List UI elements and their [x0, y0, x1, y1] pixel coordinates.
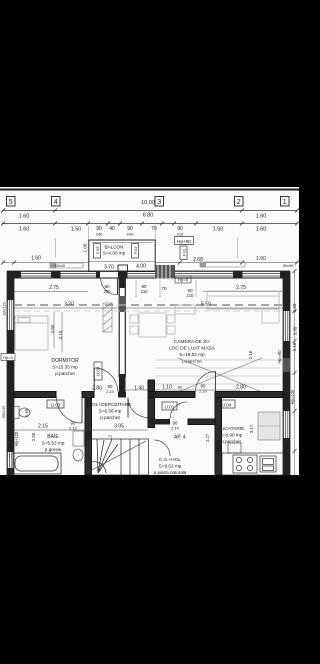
balcony door gap line — [100, 270, 118, 272]
svg-text:F.03: F.03 — [95, 246, 100, 254]
svg-text:Hp+90: Hp+90 — [177, 239, 191, 244]
window tag F01 — [180, 246, 187, 260]
dim line A — [2, 210, 297, 212]
svg-text:U.03: U.03 — [51, 403, 61, 408]
top exterior wall — [7, 265, 290, 279]
svg-text:6.80: 6.80 — [143, 213, 154, 219]
svg-text:4: 4 — [54, 199, 58, 206]
Hp=0 box right — [175, 276, 191, 283]
svg-text:2.15: 2.15 — [38, 424, 48, 430]
stairs — [88, 439, 149, 475]
svg-text:2.10: 2.10 — [292, 342, 297, 351]
svg-text:2.10: 2.10 — [248, 350, 253, 359]
grid bubble 2 — [235, 197, 244, 207]
svg-text:C.S.+HOL: C.S.+HOL — [159, 457, 181, 463]
hall door arc — [128, 398, 148, 418]
svg-text:2.80: 2.80 — [92, 386, 102, 392]
solid piers — [7, 271, 21, 279]
grid bubble 4 — [52, 197, 61, 207]
window right wall kitchen — [284, 411, 286, 438]
svg-text:F.01: F.01 — [182, 248, 187, 256]
svg-text:5: 5 — [9, 199, 13, 206]
svg-text:Hp=0: Hp=0 — [178, 278, 189, 283]
vertical wall kitchen — [215, 398, 222, 476]
svg-text:3.70: 3.70 — [64, 302, 74, 308]
svg-text:2.10: 2.10 — [171, 426, 180, 431]
svg-text:3.17: 3.17 — [249, 424, 254, 433]
svg-text:2.50: 2.50 — [31, 432, 36, 441]
svg-text:2: 2 — [237, 199, 241, 206]
svg-text:210: 210 — [141, 289, 149, 294]
svg-text:60x40: 60x40 — [283, 264, 293, 268]
dim line 1.60 row — [2, 262, 88, 264]
svg-text:Hp=90: Hp=90 — [277, 350, 282, 364]
svg-text:p.parchet: p.parchet — [100, 415, 120, 420]
svg-text:S=6.56 mp: S=6.56 mp — [99, 409, 122, 414]
winder arc — [92, 462, 107, 473]
svg-text:210: 210 — [177, 232, 184, 237]
dormitor door arc — [94, 368, 118, 392]
svg-text:1.50: 1.50 — [213, 227, 224, 233]
stove burners — [233, 455, 257, 473]
svg-text:LOC DE LUAT MASA: LOC DE LUAT MASA — [169, 346, 216, 352]
U 01 tag — [162, 402, 177, 410]
cs door arc — [155, 440, 171, 456]
sofa group — [207, 291, 279, 323]
winder fan treads — [98, 439, 112, 473]
vertical wall stairs/right — [148, 398, 155, 428]
stair break diagonal — [88, 441, 146, 472]
window right wall living — [284, 311, 286, 341]
svg-text:1.45: 1.45 — [24, 408, 29, 417]
window mid lines — [21, 274, 280, 277]
svg-text:S=15.35 mp: S=15.35 mp — [52, 365, 78, 370]
bathtub — [12, 453, 61, 474]
ticks dim lines — [1, 209, 299, 226]
svg-text:100/120: 100/120 — [3, 302, 7, 316]
X cross living — [178, 358, 262, 392]
plan white band — [0, 187, 299, 475]
svg-text:2.10: 2.10 — [199, 389, 208, 394]
grid bubble 1 — [281, 197, 290, 207]
svg-text:U.04: U.04 — [222, 403, 232, 408]
Hp+90 box — [175, 237, 194, 245]
window left wall (baie) — [8, 452, 10, 468]
door tag U.03 vertical — [94, 362, 102, 380]
svg-text:F.03: F.03 — [133, 246, 138, 254]
svg-text:Hp+120: Hp+120 — [14, 431, 19, 446]
svg-text:1.60: 1.60 — [19, 214, 30, 220]
bed — [15, 316, 48, 350]
svg-text:1.60: 1.60 — [256, 256, 266, 262]
svg-text:1.00: 1.00 — [83, 243, 88, 252]
wall segment ap4 — [148, 419, 170, 425]
beam over wall right — [200, 262, 245, 267]
door in ap4 wall — [170, 402, 187, 419]
svg-text:2.27: 2.27 — [205, 433, 210, 442]
toilet — [14, 407, 30, 419]
kitchen counter — [222, 453, 283, 475]
svg-text:3.05: 3.05 — [114, 424, 124, 430]
washbasin — [73, 449, 83, 461]
svg-text:1.60: 1.60 — [256, 214, 267, 220]
beam over wall left — [50, 263, 83, 268]
svg-text:210: 210 — [187, 293, 195, 298]
living floor lines — [155, 360, 280, 384]
top black band — [0, 0, 299, 187]
svg-text:60x40: 60x40 — [55, 264, 65, 268]
svg-text:10.00: 10.00 — [141, 200, 155, 206]
svg-text:U.03: U.03 — [96, 366, 101, 376]
svg-text:HOL+DEPOZITARE: HOL+DEPOZITARE — [89, 402, 132, 408]
svg-text:2.80: 2.80 — [236, 385, 246, 391]
svg-text:S=5.53 mp: S=5.53 mp — [42, 441, 65, 446]
svg-text:S=4.00 mp: S=4.00 mp — [103, 251, 126, 256]
svg-text:40: 40 — [109, 226, 115, 232]
svg-text:BALCON: BALCON — [105, 245, 124, 250]
dim line above W2 — [126, 389, 240, 391]
svg-text:4.00: 4.00 — [136, 264, 146, 270]
svg-text:1.60: 1.60 — [19, 227, 30, 233]
svg-text:Hp=120: Hp=120 — [290, 389, 295, 404]
svg-text:4.15: 4.15 — [58, 330, 63, 339]
svg-text:70: 70 — [161, 286, 167, 291]
svg-text:Hp=0: Hp=0 — [3, 355, 13, 360]
separator line — [0, 189, 299, 191]
svg-text:DORMITOR: DORMITOR — [51, 358, 79, 364]
window left wall (dormitor) — [8, 300, 10, 330]
sink — [260, 456, 276, 472]
baie door arc — [57, 398, 83, 424]
U 03 tag — [47, 400, 64, 408]
svg-text:250: 250 — [104, 289, 112, 294]
svg-text:3: 3 — [157, 199, 161, 206]
svg-text:90x140: 90x140 — [2, 406, 6, 418]
svg-text:2.75: 2.75 — [236, 285, 246, 291]
svg-text:AP. 4: AP. 4 — [174, 435, 186, 441]
fridge along right wall — [258, 412, 280, 440]
dining table — [130, 305, 195, 337]
svg-text:CAMERA DE ZI+: CAMERA DE ZI+ — [174, 339, 211, 345]
interior wall W2 — [14, 392, 283, 398]
svg-text:240: 240 — [96, 232, 103, 237]
kitchen door arc U04 — [196, 372, 216, 392]
svg-text:240: 240 — [127, 232, 134, 237]
svg-text:S=8.90 mp: S=8.90 mp — [220, 433, 243, 438]
right exterior wall — [283, 271, 290, 475]
svg-text:3.95: 3.95 — [293, 326, 298, 335]
svg-text:S=9.62 mp: S=9.62 mp — [159, 464, 182, 469]
vertical dims 3.50 4.15 — [53, 312, 55, 348]
washing machine — [73, 431, 84, 446]
vertical wall baie/stairs — [85, 398, 92, 476]
svg-text:1.40: 1.40 — [134, 386, 144, 392]
svg-text:70: 70 — [151, 226, 157, 232]
svg-text:p.gresie: p.gresie — [45, 447, 62, 452]
svg-text:1.50: 1.50 — [71, 227, 82, 233]
window tag F03 mid — [132, 244, 139, 259]
svg-text:71: 71 — [108, 435, 112, 439]
svg-text:1.10: 1.10 — [162, 385, 172, 391]
extension lines — [56, 226, 238, 297]
bottom black band — [0, 475, 299, 664]
balcony outline — [89, 240, 155, 271]
svg-text:S=19.52 mp: S=19.52 mp — [179, 352, 205, 357]
svg-text:5.50: 5.50 — [201, 302, 211, 308]
svg-text:1.60: 1.60 — [31, 256, 41, 262]
svg-text:3.50: 3.50 — [50, 324, 55, 333]
dashed ceiling line — [14, 304, 283, 306]
svg-text:BAIE: BAIE — [47, 434, 59, 440]
svg-text:3.70: 3.70 — [104, 265, 114, 271]
interior wall W1 — [119, 278, 126, 397]
left exterior wall — [7, 271, 14, 475]
wardrobe hatched — [103, 303, 112, 332]
svg-text:p.piatra naturala: p.piatra naturala — [154, 470, 187, 475]
svg-text:60: 60 — [178, 385, 183, 390]
wall stub above W2 — [148, 380, 155, 392]
svg-text:1: 1 — [283, 199, 287, 206]
svg-text:p.parchet: p.parchet — [55, 371, 75, 376]
balcony door arc — [101, 278, 118, 295]
window tag F03 left — [94, 244, 101, 259]
grid bubble 5 — [7, 197, 16, 207]
svg-text:2.75: 2.75 — [49, 285, 59, 291]
boiler box kitchen — [228, 443, 241, 453]
svg-text:2.10: 2.10 — [106, 389, 115, 394]
svg-text:BUCATARIE: BUCATARIE — [218, 426, 245, 432]
U 04 tag — [218, 400, 235, 408]
dim line B — [2, 223, 297, 225]
Hp=0 left tag — [1, 354, 15, 361]
grid bubble 3 — [155, 197, 164, 207]
svg-text:1.60: 1.60 — [256, 227, 267, 233]
